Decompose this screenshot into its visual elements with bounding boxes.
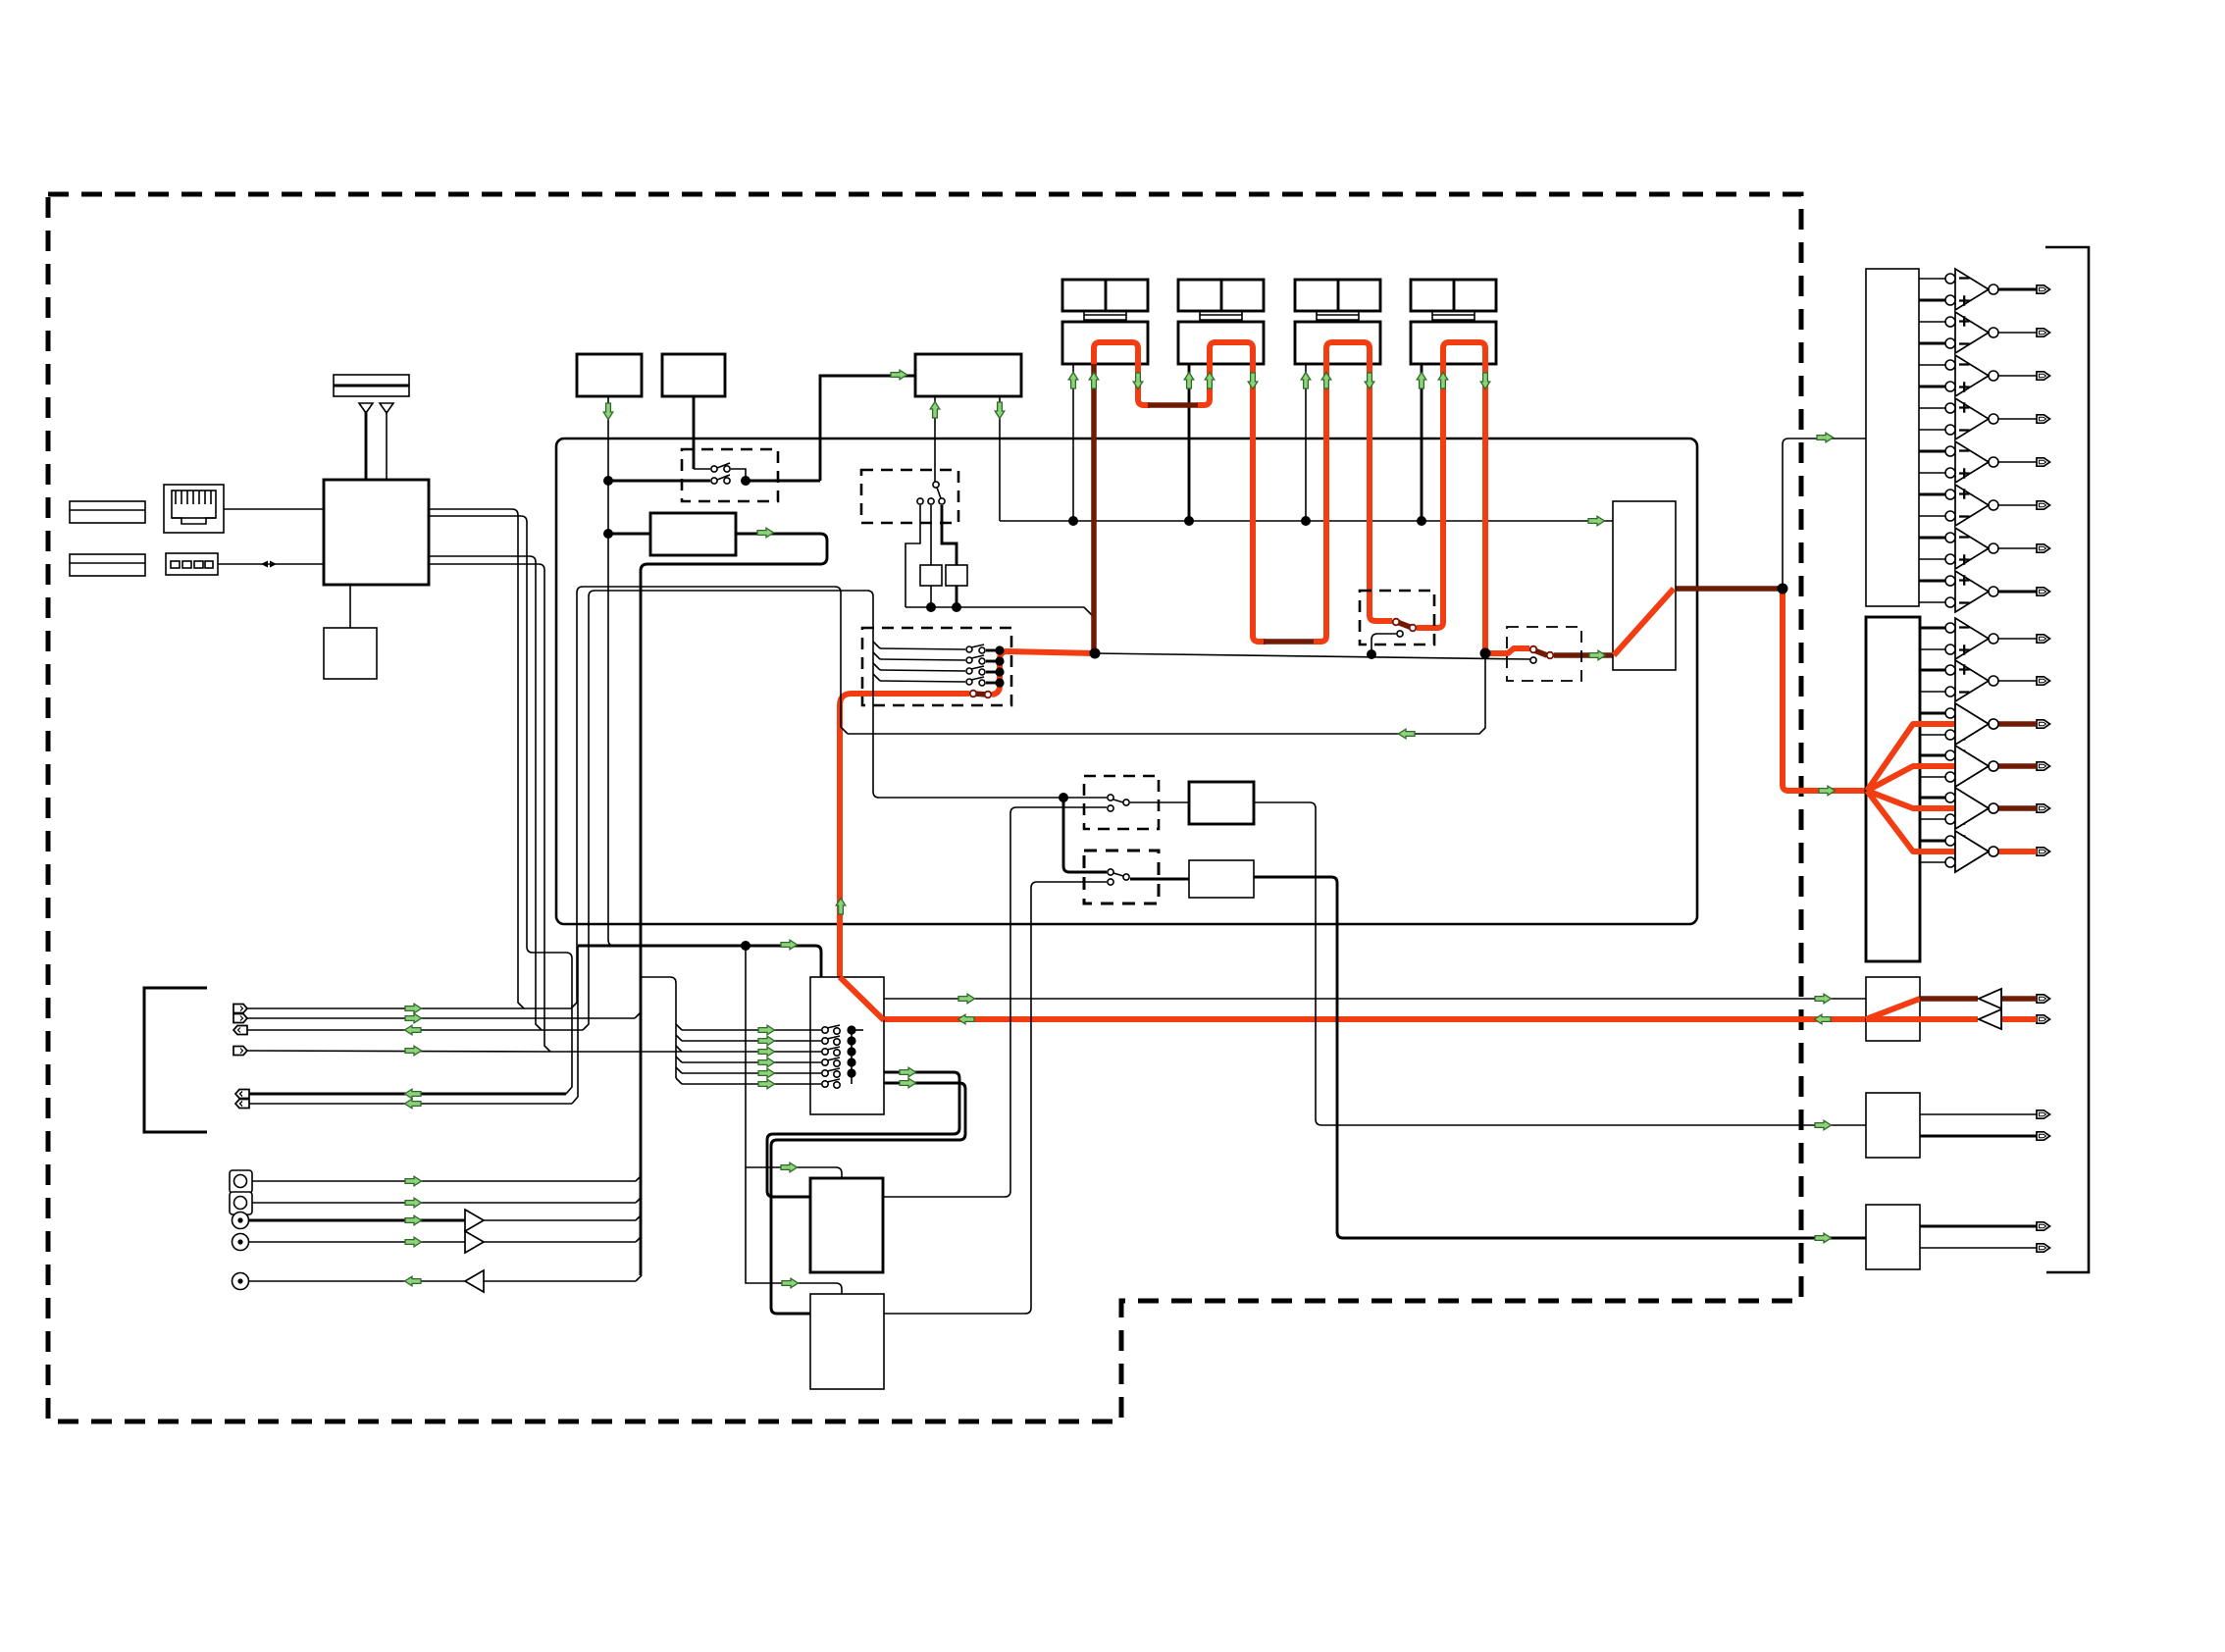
signal arrow: [758, 1068, 775, 1078]
signal arrow: [1819, 786, 1836, 796]
wire into timer: [608, 533, 650, 536]
signal arrow: [781, 940, 798, 950]
rec out C line1: [1920, 1222, 2050, 1230]
red signal fan to amp 3: [1867, 724, 1985, 791]
bass control feed wire: [746, 946, 842, 1178]
op-amp row y=868: [1920, 831, 2050, 872]
sub control feed wire: [746, 1167, 842, 1294]
node cap2 rail: [952, 602, 961, 612]
signal arrow: [1588, 516, 1605, 526]
capacitor block 2: [946, 565, 967, 586]
red signal module3 output leg: [1370, 364, 1392, 621]
node red m4 junction: [1480, 648, 1491, 659]
phones in triangle top: [1979, 989, 2037, 1008]
red signal selector row5 to mixer: [840, 694, 969, 977]
op-amp row y=651: [1920, 618, 2050, 659]
DSP module 4 top box: [1411, 280, 1496, 311]
node record feed: [741, 941, 750, 951]
block deck A: [577, 354, 642, 396]
red signal mux gain diagonal: [1614, 589, 1674, 655]
mixer input row1: [682, 1025, 840, 1034]
wire cap1 to rail: [930, 586, 932, 607]
amp output circles over red: [1989, 719, 1998, 729]
wire RJ45 to tuner: [224, 508, 324, 510]
op-amp row y=694: [1920, 660, 2050, 701]
wire deck selected to recorder box: [746, 480, 820, 483]
connector flag r5: [235, 1090, 566, 1099]
signal arrow: [781, 1162, 798, 1172]
record source wire: [879, 797, 1107, 799]
DSP module 3 main box: [1295, 322, 1380, 364]
DSP module 3 interconnect: [1317, 311, 1359, 322]
DSP module 4 interconnect: [1432, 311, 1475, 322]
rec out block C: [1866, 1205, 1920, 1269]
antenna symbol 1: [359, 403, 373, 480]
red headphone diagonal: [1866, 999, 1920, 1019]
red headphone bottom branch out: [1920, 1016, 2037, 1022]
sub processor block: [810, 1294, 884, 1389]
selector row4 switch: [966, 677, 1000, 686]
selector row2 switch: [966, 655, 1000, 664]
red amp output 3: [1992, 721, 2037, 727]
op-amp row y=515: [1919, 485, 2050, 526]
tuner output wire 2: [429, 516, 533, 953]
DSP module 2 clock wire: [1188, 364, 1191, 521]
mixer feed branch: [641, 977, 676, 1078]
signal arrow: [405, 1046, 422, 1056]
mixer input row5: [682, 1068, 840, 1077]
DSP module 2 main box: [1178, 322, 1264, 364]
red bypass switch 1 contacts: [1393, 619, 1417, 632]
red signal switch1 to module4: [1417, 364, 1443, 628]
DSP module 4 main box: [1411, 322, 1496, 364]
wire into record processor: [886, 375, 915, 378]
node bus m4: [1417, 516, 1426, 526]
signal arrow: [1589, 650, 1606, 660]
wire volume junction to poweramp bank: [1783, 439, 1866, 589]
red amp output 5: [1992, 805, 2037, 811]
signal arrow: [1205, 373, 1215, 389]
front terminal bracket: [144, 988, 207, 1132]
signal arrow: [1815, 1233, 1832, 1243]
red selector column: [992, 651, 1095, 695]
red signal module2 to module3 link: [1253, 364, 1266, 642]
signal arrow: [782, 1278, 799, 1288]
signal arrow: [405, 1025, 422, 1035]
selector row chamfer 2: [873, 652, 880, 659]
selector row3 wire: [880, 670, 965, 671]
DSP module 3 clock wire: [1305, 364, 1307, 521]
selector row chamfer 4: [873, 674, 880, 681]
signal arrow: [836, 899, 846, 915]
signal arrow: [405, 1276, 422, 1286]
DSP module 1 interconnect: [1084, 311, 1126, 322]
sub processor output: [884, 882, 1107, 1314]
red signal fan to amp 4: [1867, 766, 1985, 791]
signal arrow: [1133, 373, 1143, 389]
block deck B: [662, 354, 725, 396]
DSP module 2 interconnect: [1200, 311, 1242, 322]
signal arrow: [1815, 1014, 1832, 1024]
red signal module1 source leg: [1091, 364, 1097, 654]
red bypass switch 2 lever: [1534, 650, 1547, 655]
dashed chassis border: [48, 194, 1801, 1421]
digital bus wire to selector: [1000, 520, 1613, 522]
coax jack r9: [233, 1213, 637, 1229]
red signal module2 U loop: [1210, 342, 1253, 364]
red headphone feed straight: [1866, 1016, 1920, 1022]
wire riser to record processor: [820, 376, 886, 481]
wire deck B down: [693, 396, 696, 469]
signal arrow: [405, 1237, 422, 1247]
wire timer output loop: [641, 534, 827, 1275]
op-amp row y=427: [1919, 398, 2050, 439]
optical jack r8: [230, 1192, 636, 1214]
red bypass switch 1 lever: [1397, 622, 1410, 627]
signal arrow: [1399, 729, 1416, 739]
capacitor block 1: [920, 565, 942, 586]
mixer junction column: [847, 1025, 863, 1084]
phones pin bottom: [2037, 1015, 2050, 1023]
node deck out: [603, 476, 613, 486]
input selector dashed box: [862, 628, 1011, 705]
component ground rail wire: [906, 607, 1095, 618]
red signal module1 to module2 link: [1138, 364, 1150, 405]
signal arrow: [1068, 373, 1078, 389]
signal arrow: [1089, 373, 1099, 389]
connector flag r3: [233, 1026, 583, 1035]
node bus m1: [1068, 516, 1078, 526]
wire record split down: [1063, 798, 1107, 872]
buffer amp r10: [465, 1231, 484, 1253]
record block2 output: [1254, 877, 1866, 1238]
DSP module 1 clock wire: [1072, 364, 1074, 521]
rec out C line2: [1920, 1244, 2050, 1252]
wire processor to tv switch pivot: [934, 396, 936, 482]
tuner block: [324, 480, 429, 585]
deck switch row2 contacts: [608, 475, 750, 486]
volume mux block: [1613, 501, 1676, 670]
selector row3 switch: [966, 666, 1000, 675]
signal arrow: [1365, 373, 1374, 389]
node selector col4: [995, 678, 1004, 687]
signal arrow: [1480, 373, 1490, 389]
optical jack r7: [230, 1170, 636, 1193]
selector row1 wire: [880, 648, 965, 649]
mixer input row4: [682, 1058, 840, 1066]
DSP module 2 top box: [1178, 280, 1264, 311]
red selector row5 switch lever: [974, 694, 987, 695]
signal arrow: [1248, 373, 1258, 389]
buffer amp r9: [465, 1210, 484, 1231]
phones pin top: [2037, 995, 2050, 1003]
network port plate: [70, 501, 145, 523]
signal arrow: [1321, 373, 1331, 389]
signal arrow: [958, 994, 975, 1004]
deck select dashed box: [682, 449, 778, 501]
wire deck A down: [608, 396, 614, 946]
op-amp row y=339: [1919, 312, 2050, 353]
buffer amp r11: [465, 1270, 484, 1292]
mixer volume block: [810, 977, 884, 1114]
node record split: [1059, 793, 1068, 802]
op-amp row y=471: [1919, 441, 2050, 483]
rec out block B: [1866, 1093, 1920, 1158]
node selector col1: [995, 645, 1004, 654]
op-amp row y=738: [1920, 703, 2050, 745]
mixer input staircase: [676, 1024, 682, 1084]
rec out trunk r5: [533, 953, 572, 1094]
trunk chamfer r10: [636, 1236, 642, 1242]
red amp output 6: [1992, 849, 2037, 854]
red bypass switch 2 dashed box: [1507, 627, 1581, 681]
power amp bank A: [1866, 269, 1919, 606]
rec out trunk r6: [572, 946, 578, 1104]
node timer branch: [603, 529, 613, 539]
red signal module3 U loop: [1326, 342, 1370, 364]
USB jack icon: [166, 553, 218, 575]
red amp output 4: [1992, 763, 2037, 769]
USB port plate: [70, 554, 145, 576]
rec out B line2: [1920, 1132, 2050, 1140]
main system bus rect: [556, 439, 1697, 924]
selector feeder trunk from r3: [583, 591, 879, 1030]
record feed wire: [578, 946, 821, 977]
antenna symbol 2: [380, 403, 393, 480]
selector row2 wire: [880, 659, 965, 660]
op-amp row y=824: [1920, 788, 2050, 829]
signal arrow: [1817, 433, 1834, 442]
tuner output wire 4: [429, 564, 550, 1052]
signal arrow: [405, 1004, 422, 1013]
connector flag r4: [233, 1047, 550, 1056]
signal arrow: [891, 370, 907, 380]
signal arrow: [405, 1198, 422, 1208]
signal arrow: [958, 1014, 975, 1024]
wire into cap 1: [930, 505, 932, 565]
bass processor block: [810, 1178, 883, 1272]
red mixer gain diagonal: [840, 977, 884, 1020]
node bus m3: [1301, 516, 1311, 526]
node bus m2: [1184, 516, 1194, 526]
coax jack r11: [233, 1273, 637, 1290]
record block1 output: [1254, 802, 1866, 1125]
op-amp row y=603: [1919, 571, 2050, 612]
tuner output wire 3: [429, 556, 542, 1030]
op-amp row y=295: [1919, 269, 2050, 310]
antenna terminal board: [334, 375, 409, 396]
record select switch 2 dashed box: [1084, 851, 1159, 903]
signal arrow: [603, 403, 613, 420]
red bypass switch 2 contacts: [1530, 646, 1554, 659]
op-amp row y=383: [1919, 355, 2050, 396]
red signal mux output: [1674, 586, 1783, 592]
wire tuner to flash: [349, 585, 351, 628]
red headphone top branch out: [1920, 996, 2037, 1002]
signal arrow: [405, 1215, 422, 1225]
switch1 alternate contact: [1371, 631, 1403, 654]
matching transformer frame right: [942, 505, 957, 565]
connector flag r1: [233, 1005, 571, 1013]
node selector col2: [995, 656, 1004, 665]
phones triangles over red: [1979, 989, 2001, 1029]
op-amp row y=781: [1920, 746, 2050, 787]
record bypass feeder from r1: [571, 587, 848, 1008]
trunk chamfer r8: [636, 1197, 642, 1203]
red signal module4 output leg: [1485, 364, 1529, 653]
tv sound select dashed box: [861, 470, 958, 523]
signal arrow: [405, 1013, 422, 1023]
red signal into mux: [1554, 652, 1613, 658]
signal arrow: [900, 1078, 916, 1088]
matching transformer frame left: [906, 505, 920, 607]
selector row4 wire: [880, 681, 965, 682]
speaker bracket right: [2045, 247, 2089, 1272]
bass processor output: [883, 807, 1107, 1197]
selector row chamfer 1: [873, 642, 880, 648]
op-amp row y=559: [1919, 528, 2050, 569]
switch2 alternate contact: [1530, 657, 1536, 663]
flash memory block below tuner: [324, 628, 377, 679]
mixer input row2: [682, 1036, 840, 1045]
rec out B line1: [1920, 1110, 2050, 1118]
wire cap2 to rail: [956, 586, 958, 607]
node red mux junction: [1778, 584, 1788, 594]
RJ45 jack icon: [164, 485, 224, 533]
DSP module 1 top box: [1062, 280, 1148, 311]
node cap1 rail: [926, 602, 936, 612]
timer block: [650, 513, 736, 555]
signal arrow: [995, 402, 1005, 419]
signal arrow: [930, 402, 940, 419]
deck switch row1 contacts: [694, 463, 746, 477]
red signal module1 U loop: [1094, 342, 1138, 364]
DSP module 3 top box: [1295, 280, 1380, 311]
wire switch2 to record block2: [1130, 878, 1189, 881]
signal arrow: [758, 1047, 775, 1057]
eq loop send lower: [771, 1083, 965, 1314]
signal arrow: [758, 1058, 775, 1067]
trunk chamfer r7: [636, 1175, 642, 1181]
power amp bank B: [1866, 617, 1920, 961]
signal arrow: [405, 1099, 422, 1109]
switch1 contacts: [1108, 795, 1129, 811]
tuner output wire 1: [429, 509, 524, 1008]
red signal fan to amp 5: [1867, 791, 1985, 808]
connector flag r2: [233, 1014, 635, 1023]
record select switch 1 dashed box: [1084, 776, 1159, 829]
amp triangles over red: [1955, 703, 1989, 872]
trunk chamfer r11: [636, 1275, 642, 1281]
record block 1: [1189, 782, 1254, 824]
red signal down to power amps: [1783, 589, 1866, 791]
signal arrow: [1815, 1120, 1832, 1130]
tv switch pivot and contacts: [917, 482, 945, 504]
red signal fan to amp 6: [1867, 791, 1985, 852]
headphone block: [1866, 977, 1920, 1041]
record processor block: [915, 354, 1021, 396]
signal arrow: [758, 1036, 775, 1046]
DSP module 1 main box: [1062, 322, 1148, 364]
signal arrow: [1184, 373, 1194, 389]
selector row1 switch: [966, 645, 1000, 653]
selector row chamfer 3: [873, 663, 880, 670]
signal arrow: [405, 1176, 422, 1186]
wire processor right leg down: [999, 396, 1001, 521]
coax jack r10: [233, 1234, 637, 1251]
monitor select wire: [1095, 653, 1530, 659]
headphone line out: [884, 998, 1866, 1000]
phones in triangle bottom: [1979, 1009, 2037, 1029]
mixer input row3: [550, 1047, 840, 1056]
eq loop send upper: [767, 1072, 959, 1197]
signal arrow: [758, 1079, 775, 1089]
signal arrow: [757, 528, 774, 538]
signal arrow: [1438, 373, 1448, 389]
connector flag r6: [235, 1100, 572, 1109]
DSP module 4 clock wire: [1421, 364, 1423, 521]
signal arrow: [900, 1067, 916, 1077]
wire switch1 to record block1: [1130, 801, 1189, 803]
mixer input row6: [682, 1079, 840, 1088]
signal arrow: [1815, 994, 1832, 1004]
signal arrow: [1301, 373, 1311, 389]
red bypass switch 1 dashed box: [1360, 591, 1434, 645]
signal arrow: [405, 1089, 422, 1099]
node red selector junction: [1090, 648, 1101, 659]
red monitor return line: [884, 1016, 1866, 1022]
record block 2: [1189, 860, 1254, 898]
wire USB to tuner with bidir arrows: [218, 561, 324, 568]
red signal module4 U loop: [1443, 342, 1485, 364]
trunk chamfer r9: [636, 1214, 642, 1220]
red selector row5 contacts: [970, 691, 992, 698]
switch2 contacts: [1108, 869, 1129, 885]
signal arrow: [1417, 373, 1426, 389]
monitor tap wire: [848, 653, 1485, 734]
signal arrow: [758, 1025, 775, 1035]
node selector col3: [995, 667, 1004, 676]
trunk chamfer r2: [635, 1012, 641, 1018]
node switch1 alt: [1367, 649, 1376, 659]
